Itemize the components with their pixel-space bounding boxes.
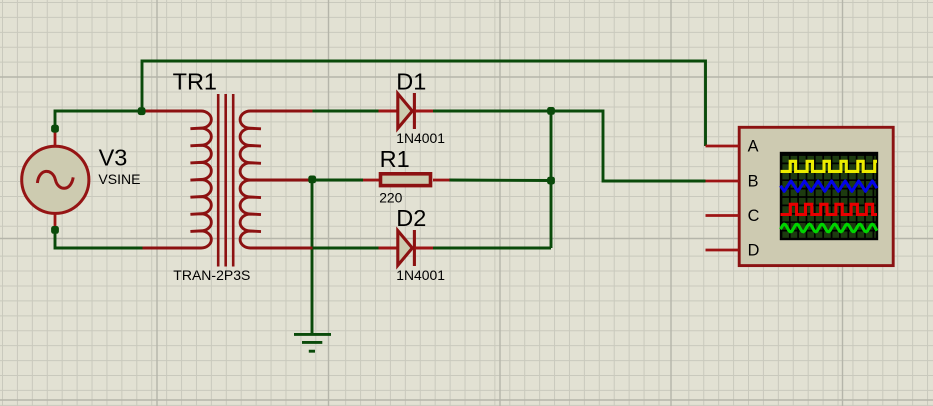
diode D1 <box>379 93 434 129</box>
diode D2 <box>379 230 434 266</box>
label pin D <box>748 242 760 260</box>
wire transformer sec bottom to D2 anode <box>312 247 379 250</box>
svg-text:D: D <box>748 242 760 260</box>
wire junction column D1-R1-D2 <box>550 111 553 248</box>
node R1 output junction <box>547 177 555 185</box>
node V3 top <box>51 125 59 133</box>
svg-text:VSINE: VSINE <box>98 171 140 187</box>
label pin C <box>748 207 760 225</box>
transformer TR1 <box>143 94 313 267</box>
node V3 bottom <box>51 226 59 234</box>
svg-text:B: B <box>748 173 759 191</box>
waveform channel C red <box>781 204 878 214</box>
oscilloscope pin A <box>706 145 740 148</box>
label pin B <box>748 173 759 191</box>
svg-text:220: 220 <box>379 189 402 205</box>
svg-text:V3: V3 <box>99 144 128 170</box>
svg-text:TR1: TR1 <box>173 68 217 94</box>
svg-text:D1: D1 <box>396 68 426 94</box>
wire V3 bottom terminal to transformer primary bottom <box>55 230 143 248</box>
label R1 <box>380 146 410 172</box>
wire tap to ground <box>311 180 314 334</box>
wire D2 cathode to junction column <box>433 247 551 250</box>
svg-text:R1: R1 <box>380 146 410 172</box>
svg-text:TRAN-2P3S: TRAN-2P3S <box>173 267 250 283</box>
node tap junction <box>308 176 316 184</box>
label 220 <box>379 189 402 205</box>
oscilloscope body <box>739 127 893 265</box>
oscilloscope pin B <box>706 180 740 183</box>
wire V3 top terminal to transformer primary top <box>55 111 142 129</box>
label TR1 <box>173 68 217 94</box>
resistor R1 <box>363 174 450 186</box>
wire top: transformer primary to scope pin A <box>142 61 706 146</box>
wire transformer sec top to D1 anode <box>312 110 379 113</box>
node D1 output junction <box>547 107 555 115</box>
wire D1 cathode to node and scope pin B <box>433 111 706 181</box>
oscilloscope screen <box>780 152 878 240</box>
node primary top junction <box>138 107 146 115</box>
oscilloscope pin C <box>706 214 740 217</box>
label VSINE <box>98 171 140 187</box>
label pin A <box>748 138 759 156</box>
wire transformer tap to R1 left <box>312 179 363 182</box>
label D1 <box>396 68 426 94</box>
label D2 <box>396 205 426 231</box>
label TRAN-2P3S <box>173 267 250 283</box>
svg-text:1N4001: 1N4001 <box>396 267 445 283</box>
waveform channel A yellow <box>781 161 878 171</box>
ground <box>294 334 331 351</box>
label V3 <box>99 144 128 170</box>
svg-text:D2: D2 <box>396 205 426 231</box>
label 1N4001 of D1 <box>396 130 445 146</box>
svg-text:A: A <box>748 138 759 156</box>
svg-text:1N4001: 1N4001 <box>396 130 445 146</box>
waveform channel B blue <box>781 181 878 191</box>
label 1N4001 of D2 <box>396 267 445 283</box>
wire R1 right to junction column <box>449 179 551 182</box>
voltage source V3 <box>22 127 89 232</box>
svg-text:C: C <box>748 207 760 225</box>
oscilloscope pin D <box>706 249 740 252</box>
waveform channel D green <box>781 224 878 232</box>
